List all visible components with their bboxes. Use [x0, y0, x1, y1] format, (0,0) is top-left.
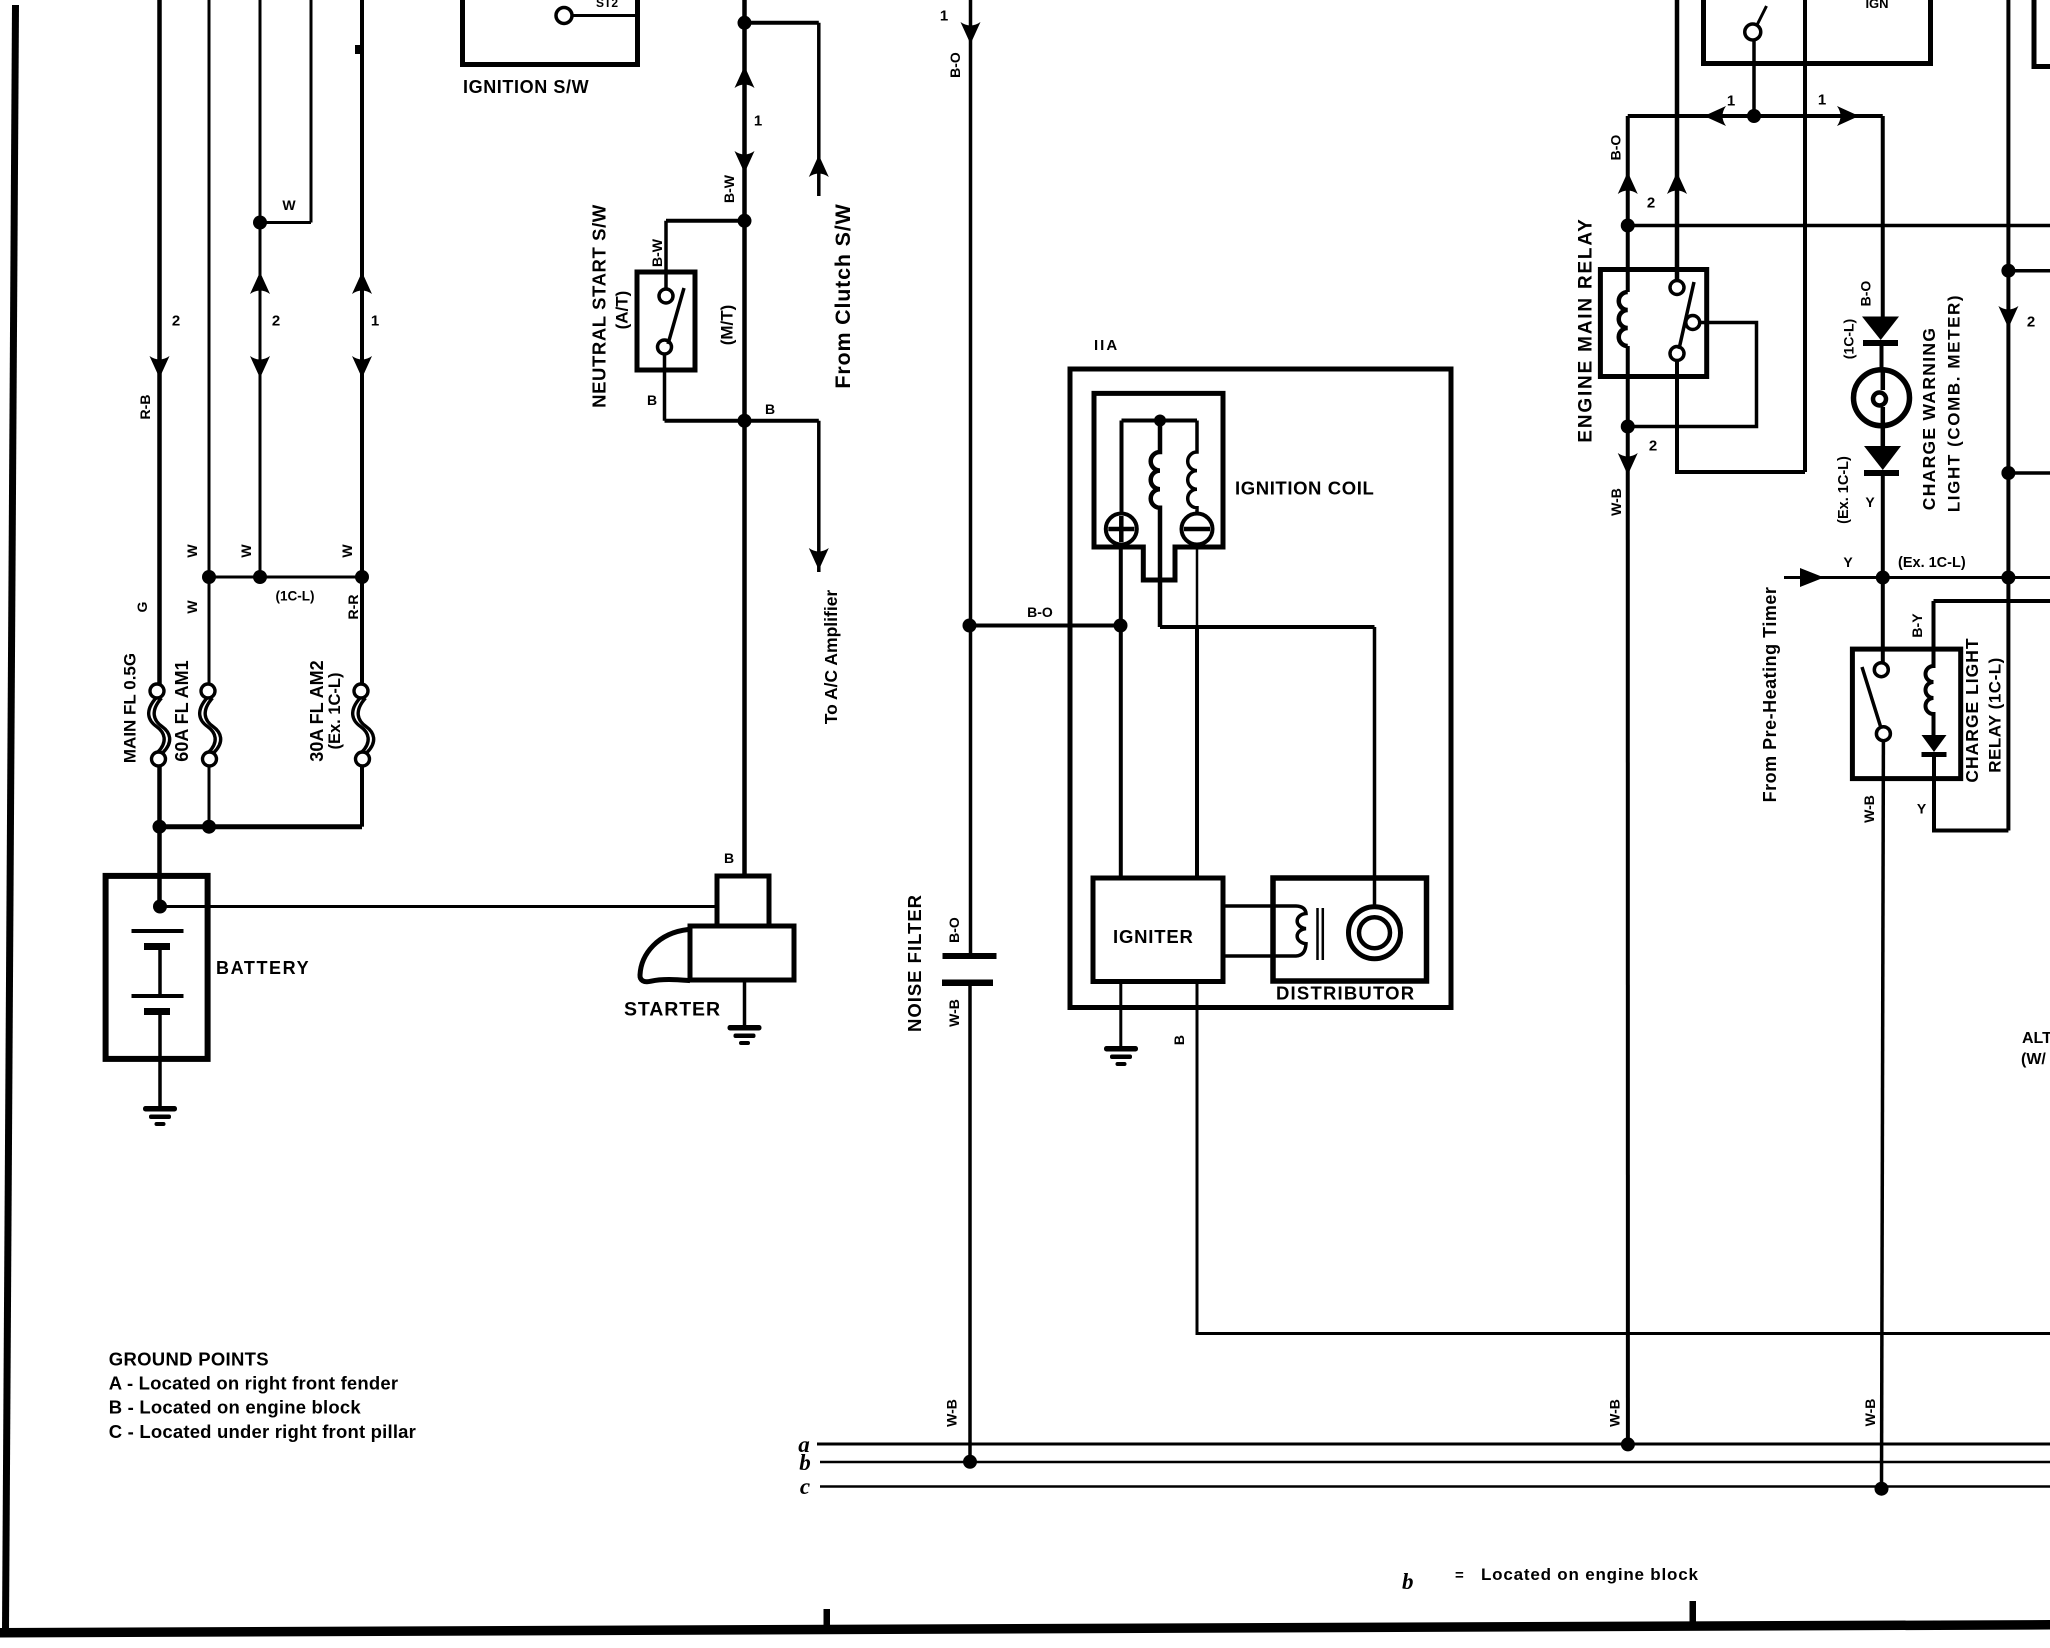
node W3/W4 junction — [253, 216, 267, 230]
ground igniter — [1104, 1046, 1138, 1066]
battery cell plate long 1 — [132, 929, 184, 933]
svg-text:ENGINE MAIN RELAY: ENGINE MAIN RELAY — [1576, 217, 1597, 442]
svg-text:From Clutch S/W: From Clutch S/W — [831, 203, 855, 388]
wire ST2 terminal to box edge — [573, 14, 638, 17]
arrow down on W-B relay wire — [1618, 453, 1638, 475]
wire battery to starter — [160, 905, 717, 908]
wire starter to ground — [743, 980, 747, 1026]
NSS terminal top — [659, 289, 673, 303]
wire IGN terminal to arrow line — [1752, 40, 1756, 116]
IGNITION S/W box — [463, 0, 638, 65]
wire igniter B output — [1197, 982, 2050, 1334]
svg-text:STARTER: STARTER — [624, 999, 721, 1021]
svg-text:A - Located on right front fen: A - Located on right front fender — [109, 1373, 399, 1394]
svg-text:1: 1 — [1727, 93, 1735, 110]
wire W-B relay to bus a — [1626, 427, 1630, 1445]
scan blob on W5 — [355, 45, 362, 54]
wire W5 (AM2) x=362 — [360, 0, 364, 685]
wire W3-W4 link — [260, 221, 311, 224]
IGN switch blade — [1757, 6, 1767, 26]
svg-text:B-O: B-O — [947, 52, 963, 78]
arrow up on B-O coil feed — [1618, 172, 1638, 194]
ignition switch ST2 terminal — [556, 8, 572, 24]
node coil top junction — [1154, 415, 1166, 427]
diode 1C-L — [1862, 317, 1899, 347]
node W-B on bus c — [1875, 1482, 1889, 1496]
wire long horizontal to alternator — [1628, 224, 2050, 228]
svg-text:W: W — [339, 544, 355, 558]
bus a — [817, 1443, 2050, 1446]
svg-text:GROUND POINTS: GROUND POINTS — [109, 1349, 269, 1370]
svg-text:LIGHT (COMB. METER): LIGHT (COMB. METER) — [1945, 294, 1964, 512]
svg-text:To A/C Amplifier: To A/C Amplifier — [821, 590, 841, 725]
node B junction — [738, 414, 752, 428]
relay blade — [1679, 282, 1694, 349]
ground battery — [143, 1106, 177, 1126]
arrow down on starter main — [735, 151, 755, 173]
arrow right on arrow line — [1837, 106, 1859, 126]
svg-text:B-W: B-W — [649, 238, 665, 267]
engine main relay coil — [1619, 292, 1628, 346]
relay switch terminal top — [1670, 281, 1684, 295]
wire W3 (ignition feed) x=260 — [259, 0, 262, 577]
node bus/W2 — [202, 820, 216, 834]
wire charge relay coil out — [1934, 757, 2008, 831]
svg-text:IGNITION COIL: IGNITION COIL — [1235, 478, 1374, 499]
diode Ex.1C-L — [1864, 446, 1901, 476]
svg-text:2: 2 — [1649, 438, 1657, 455]
fuse 60A FL AM1 — [200, 684, 221, 766]
svg-text:B - Located on engine block: B - Located on engine block — [109, 1397, 362, 1418]
wire B-O vertical x=970.5 — [969, 0, 973, 953]
battery box — [106, 876, 208, 1059]
arrow down on B-O — [961, 22, 981, 44]
corner box top right — [2034, 0, 2050, 67]
arrow left on arrow line — [1704, 106, 1726, 126]
node coil/link junction — [1621, 420, 1635, 434]
svg-text:(M/T): (M/T) — [718, 305, 737, 346]
svg-text:IGNITION S/W: IGNITION S/W — [463, 77, 589, 97]
svg-text:W-B: W-B — [946, 999, 962, 1027]
wire + terminal down to igniter — [1119, 545, 1123, 879]
node B-O branch — [963, 619, 977, 633]
node W-B on bus a — [1621, 1437, 1635, 1451]
charge relay switch terminal bottom — [1876, 727, 1890, 741]
node relay feed branch — [1621, 219, 1635, 233]
arrow down right edge — [1998, 306, 2018, 328]
svg-text:Y: Y — [1865, 494, 1875, 510]
node right stub 2 — [2001, 466, 2015, 480]
node on W3 at 577 — [253, 570, 267, 584]
arrow down on W1 — [150, 356, 170, 378]
svg-text:B-O: B-O — [1027, 604, 1053, 620]
svg-text:From Pre-Heating Timer: From Pre-Heating Timer — [1760, 587, 1780, 803]
svg-text:2: 2 — [2027, 314, 2035, 331]
node on W2 at 577 — [202, 570, 216, 584]
svg-text:2: 2 — [1647, 195, 1655, 212]
svg-text:RELAY (1C-L): RELAY (1C-L) — [1986, 657, 2005, 773]
noise filter capacitor plate bottom — [942, 980, 993, 987]
NEUTRAL START S/W box — [637, 272, 695, 370]
DISTRIBUTOR box — [1273, 878, 1427, 981]
svg-text:1: 1 — [371, 313, 379, 330]
node right stub 1 — [2001, 264, 2015, 278]
wire battery bus horizontal — [160, 824, 363, 829]
wire relay mid terminal link — [1628, 323, 1757, 427]
svg-text:C - Located under right front: C - Located under right front pillar — [109, 1421, 416, 1442]
svg-text:Y: Y — [1917, 801, 1927, 817]
svg-text:(Ex. 1C-L): (Ex. 1C-L) — [1898, 555, 1966, 571]
wire right stub 1 — [2008, 269, 2050, 273]
coil + terminal — [1106, 514, 1137, 545]
svg-text:(1C-L): (1C-L) — [1841, 319, 1857, 359]
IIA assembly box — [1070, 369, 1451, 1008]
wire right edge vertical x=2008.4 — [2006, 0, 2010, 831]
svg-text:30A FL AM2: 30A FL AM2 — [307, 660, 327, 761]
wire right stub 2 — [2008, 471, 2050, 475]
svg-text:B-O: B-O — [1858, 281, 1874, 307]
bus c — [820, 1485, 2050, 1488]
arrow up on starter main — [735, 66, 755, 88]
distributor rotor outer — [1349, 907, 1401, 959]
wire W2 (AM1) x=209 — [208, 0, 211, 685]
svg-text:W-B: W-B — [944, 1399, 960, 1427]
wire charge relay switch to bus c — [1882, 741, 1884, 1489]
starter pinion — [640, 930, 690, 982]
node main/clutch junction — [738, 16, 752, 30]
wire B-O horizontal to coil — [970, 624, 1121, 628]
svg-text:B-Y: B-Y — [1909, 613, 1925, 638]
svg-text:1: 1 — [754, 113, 762, 130]
minus sign — [1184, 527, 1210, 532]
charge relay blade — [1862, 667, 1881, 728]
svg-text:W: W — [282, 197, 296, 213]
coil - terminal — [1182, 514, 1213, 545]
ignition coil primary winding — [1151, 421, 1160, 628]
svg-text:IGN: IGN — [1865, 0, 1888, 11]
svg-text:b: b — [799, 1450, 811, 1475]
svg-text:60A FL AM1: 60A FL AM1 — [172, 660, 192, 761]
distributor rotor inner — [1359, 917, 1390, 948]
arrow up on W3 — [250, 272, 270, 294]
charge relay diode — [1922, 735, 1947, 757]
svg-text:B: B — [724, 850, 734, 866]
svg-text:(1C-L): (1C-L) — [276, 589, 315, 604]
svg-text:=: = — [1455, 1567, 1464, 1584]
battery cell plate short 1 — [144, 943, 170, 950]
svg-text:R-B: R-B — [137, 395, 153, 420]
node W-B on bus b — [963, 1455, 977, 1469]
arrow down on W5 — [352, 356, 372, 378]
arrow up on clutch wire — [809, 155, 829, 177]
svg-text:B-O: B-O — [946, 917, 962, 943]
page left border — [6, 5, 16, 1630]
wire to A/C amplifier — [817, 421, 821, 572]
IGN switch box (top right) — [1704, 0, 1931, 64]
wire B-O relay coil feed x=1627.75 — [1626, 116, 1630, 292]
node B-O to + wire — [1114, 619, 1128, 633]
page bottom border — [0, 1620, 2050, 1638]
svg-text:B: B — [647, 392, 657, 408]
charge warning light bulb — [1854, 370, 1910, 426]
wire B-Y horizontal — [1934, 599, 2050, 603]
wire coil bottom to junction — [1626, 346, 1630, 427]
wire primary to distributor horizontal — [1160, 625, 1375, 629]
fuse 30A FL AM2 — [353, 684, 374, 766]
starter solenoid box — [717, 876, 769, 926]
starter motor box — [690, 926, 794, 980]
wire B junction horizontal — [665, 419, 819, 423]
svg-text:1: 1 — [1818, 92, 1826, 109]
charge relay switch terminal top — [1874, 663, 1888, 677]
IGN ST terminal — [1745, 24, 1761, 40]
svg-text:2: 2 — [172, 313, 180, 330]
ENGINE MAIN RELAY box — [1600, 270, 1706, 377]
CHARGE LIGHT RELAY box — [1852, 649, 1960, 779]
bulb filament — [1881, 371, 1886, 390]
wire NSS bottom lead — [663, 354, 667, 421]
bus b — [820, 1461, 2050, 1464]
wire W-B down to bus b — [968, 986, 972, 1462]
plus sign — [1108, 527, 1134, 532]
svg-text:NEUTRAL START S/W: NEUTRAL START S/W — [589, 204, 610, 408]
svg-text:ALT: ALT — [2022, 1030, 2050, 1047]
arrow right pre-heating — [1800, 568, 1824, 587]
svg-text:R-R: R-R — [345, 595, 361, 620]
svg-text:W: W — [184, 544, 200, 558]
wire from clutch s/w vertical — [817, 23, 821, 196]
svg-text:W-B: W-B — [1608, 488, 1624, 516]
battery cell plate long 2 — [132, 994, 184, 998]
svg-text:G: G — [134, 601, 150, 612]
svg-text:W-B: W-B — [1607, 1399, 1623, 1427]
svg-text:Y: Y — [1843, 554, 1853, 570]
node IGN junction — [1747, 109, 1761, 123]
svg-text:DISTRIBUTOR: DISTRIBUTOR — [1276, 983, 1415, 1004]
border tick 2 — [1690, 1601, 1697, 1625]
wire coil + lead — [1120, 421, 1124, 515]
svg-text:B: B — [1171, 1035, 1187, 1045]
svg-text:W: W — [184, 600, 200, 614]
node on W5 at 577 — [355, 570, 369, 584]
svg-text:B-W: B-W — [721, 174, 737, 203]
relay switch terminal mid — [1686, 316, 1700, 330]
svg-text:B-O: B-O — [1608, 135, 1624, 161]
relay switch terminal bottom — [1670, 347, 1684, 361]
fuse MAIN FL 0.5G — [149, 684, 170, 766]
svg-text:(W/: (W/ — [2021, 1051, 2046, 1068]
svg-text:W-B: W-B — [1861, 795, 1877, 823]
wire 1C-L horizontal — [209, 576, 362, 579]
svg-text:W-B: W-B — [1862, 1399, 1878, 1427]
wire starter main x=744.5 — [742, 0, 747, 876]
node Y junction right — [2001, 571, 2015, 585]
svg-text:W: W — [238, 544, 254, 558]
border tick 1 — [824, 1609, 831, 1633]
svg-text:IIA: IIA — [1094, 337, 1119, 354]
arrow up on relay switch feed — [1667, 172, 1687, 194]
wire relay switch feed x=1677 — [1675, 0, 1680, 281]
arrow down on W3 — [250, 356, 270, 378]
wire charge light vertical upper — [1881, 116, 1885, 318]
svg-text:(Ex. 1C-L): (Ex. 1C-L) — [326, 672, 344, 749]
svg-text:2: 2 — [272, 313, 280, 330]
wire distributor rotor feed vertical — [1373, 627, 1377, 908]
svg-text:1: 1 — [940, 8, 948, 25]
svg-text:b: b — [1402, 1569, 1414, 1594]
node Y junction charge light — [1876, 571, 1890, 585]
wire diode2 to Y junction — [1881, 476, 1885, 663]
svg-text:NOISE FILTER: NOISE FILTER — [904, 894, 925, 1032]
svg-text:CHARGE WARNING: CHARGE WARNING — [1919, 327, 1939, 510]
battery cell plate short 2 — [144, 1008, 170, 1015]
svg-text:Located on engine block: Located on engine block — [1481, 1565, 1699, 1584]
wire from pre-heating timer — [1784, 576, 2050, 579]
node battery positive — [153, 900, 167, 914]
node bus/W1 — [153, 820, 167, 834]
svg-text:MAIN FL 0.5G: MAIN FL 0.5G — [121, 653, 140, 763]
noise filter capacitor plate top — [943, 953, 997, 959]
NSS terminal bottom — [658, 340, 672, 354]
svg-text:ST2: ST2 — [596, 0, 618, 10]
svg-text:B: B — [765, 401, 775, 417]
IGNITER box — [1093, 878, 1223, 982]
wire battery negative to ground — [158, 1012, 162, 1109]
ignition coil case box with notch — [1094, 393, 1223, 580]
wire secondary thin segment — [1196, 545, 1199, 627]
svg-text:CHARGE LIGHT: CHARGE LIGHT — [1962, 637, 1982, 782]
distributor pickup coil — [1223, 906, 1306, 956]
svg-text:IGNITER: IGNITER — [1113, 926, 1194, 947]
wire coil top horizontal — [1122, 419, 1198, 423]
charge relay coil — [1926, 601, 1934, 735]
arrow down on A/C wire — [809, 548, 829, 570]
battery mid wire — [158, 947, 162, 997]
wire clutch branch horizontal — [745, 21, 819, 25]
arrow up on W5 — [352, 272, 372, 294]
wire secondary to igniter — [1195, 627, 1199, 879]
wire NSS top lead — [664, 221, 668, 290]
ignition coil secondary winding — [1188, 421, 1197, 515]
wire relay switch bottom out — [1677, 361, 1805, 473]
wire diode to bulb — [1880, 346, 1884, 372]
ground starter — [728, 1025, 762, 1045]
svg-text:(A/T): (A/T) — [613, 291, 632, 330]
svg-text:(Ex. 1C-L): (Ex. 1C-L) — [1836, 456, 1852, 524]
wire W1 main feed (R-B) x=159.5 — [157, 0, 162, 685]
node B-W junction — [738, 214, 752, 228]
wire B-W to neutral start switch — [666, 219, 745, 223]
wire W4 stub x=311 — [310, 0, 313, 223]
wire arrow line horizontal y=116 — [1628, 114, 1883, 118]
wire igniter to ground — [1119, 982, 1122, 1048]
wire IG2 vertical x=1805 — [1803, 0, 1807, 472]
svg-text:c: c — [800, 1474, 810, 1499]
distributor core lines — [1316, 908, 1319, 960]
svg-text:BATTERY: BATTERY — [216, 958, 310, 978]
NSS blade — [668, 288, 684, 344]
